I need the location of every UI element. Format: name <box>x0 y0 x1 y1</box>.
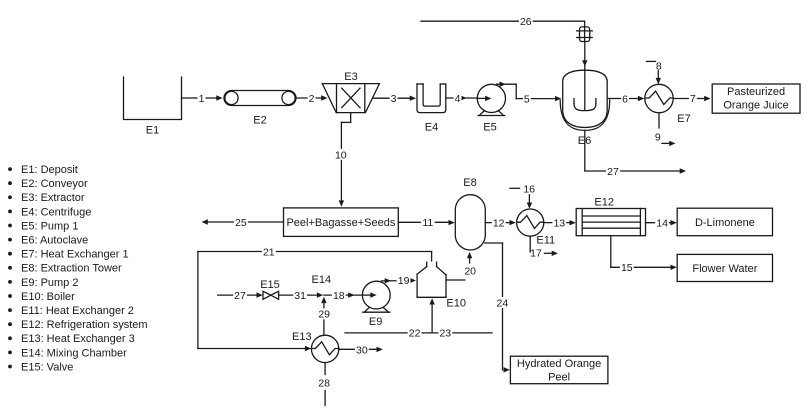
svg-text:9: 9 <box>655 131 661 143</box>
svg-text:E3: E3 <box>344 71 357 83</box>
wire stream 13 <box>544 217 576 229</box>
wire stream 22-23 (into E10 bottom) <box>345 298 492 340</box>
wire stream 12 <box>485 217 516 229</box>
svg-text:E8: E8 <box>463 177 476 189</box>
svg-text:25: 25 <box>235 217 247 229</box>
svg-text:E13: Heat Exchanger 3: E13: Heat Exchanger 3 <box>21 333 135 345</box>
svg-text:6: 6 <box>622 93 628 105</box>
svg-text:E1: Deposit: E1: Deposit <box>21 164 78 176</box>
svg-text:E12: E12 <box>594 196 614 208</box>
wire stream 27 feed (into valve E15) <box>218 290 263 302</box>
mixing chamber E14 (tee junction) <box>312 274 332 286</box>
svg-text:Orange Juice: Orange Juice <box>723 99 788 111</box>
wire stream 19 (pump E9 discharge) <box>382 275 416 287</box>
svg-text:23: 23 <box>439 328 451 340</box>
extractor E3 <box>322 71 379 112</box>
svg-text:Flower Water: Flower Water <box>692 263 757 275</box>
wire stream 11 <box>398 217 455 229</box>
wire stream 21 (loop) <box>198 246 432 351</box>
svg-text:22: 22 <box>409 328 421 340</box>
legend equipment list <box>8 164 147 373</box>
svg-text:E14: E14 <box>312 274 332 286</box>
svg-text:29: 29 <box>318 309 330 321</box>
svg-text:11: 11 <box>422 217 433 229</box>
wire stream 27 (E6 bottom out) <box>585 130 686 178</box>
svg-text:Peel+Bagasse+Seeds: Peel+Bagasse+Seeds <box>286 217 395 229</box>
svg-text:7: 7 <box>690 93 696 105</box>
wire stream 2 <box>296 93 328 105</box>
motor M on autoclave E6 <box>577 21 593 41</box>
svg-text:E11: Heat Exchanger 2: E11: Heat Exchanger 2 <box>21 305 134 317</box>
wire stream 14 <box>646 217 677 229</box>
wire stream 30 (E13 out) <box>339 344 383 356</box>
svg-text:E8: Extraction Tower: E8: Extraction Tower <box>21 263 122 275</box>
svg-text:3: 3 <box>391 93 397 105</box>
autoclave E6 vessel <box>563 70 608 127</box>
svg-text:E9: Pump 2: E9: Pump 2 <box>21 277 78 289</box>
wire stream 24 (E8 to Hydrated Orange Peel) <box>485 243 510 373</box>
conveyor E2 <box>224 91 296 127</box>
svg-text:30: 30 <box>356 344 368 356</box>
heat exchanger E7 <box>645 84 691 125</box>
svg-text:Peel: Peel <box>548 371 570 383</box>
wire stream 5 (pump E5 discharge) <box>497 82 562 106</box>
svg-text:20: 20 <box>464 266 476 278</box>
sink box Pasteurized Orange Juice <box>712 84 800 113</box>
svg-text:E2: Conveyor: E2: Conveyor <box>21 178 88 190</box>
svg-text:16: 16 <box>523 183 535 195</box>
wire stream 1 <box>182 93 223 105</box>
svg-text:E5: Pump 1: E5: Pump 1 <box>21 220 78 232</box>
wire stream 8 (into E7) <box>647 60 662 84</box>
svg-text:21: 21 <box>263 246 275 258</box>
svg-text:4: 4 <box>455 93 461 105</box>
refrigeration system E12 <box>576 196 645 235</box>
sink box Hydrated Orange Peel <box>510 356 608 384</box>
wire stream 26 <box>421 16 585 28</box>
wire stream 6 <box>607 93 644 105</box>
svg-text:15: 15 <box>621 262 633 274</box>
svg-text:E2: E2 <box>253 114 266 126</box>
valve E15 <box>260 279 280 299</box>
svg-text:E7: E7 <box>677 113 690 125</box>
wire stream 16 (into E11) <box>510 183 535 208</box>
svg-text:E13: E13 <box>292 331 312 343</box>
svg-text:E6: Autoclave: E6: Autoclave <box>21 235 88 247</box>
heat exchanger E11 <box>517 209 556 246</box>
sink box D-Limonene <box>677 208 772 236</box>
wire stream 18 <box>324 289 363 301</box>
svg-text:E3: Extractor: E3: Extractor <box>21 192 85 204</box>
svg-text:17: 17 <box>530 248 542 260</box>
svg-text:E4: E4 <box>425 121 438 133</box>
svg-text:27: 27 <box>234 290 246 302</box>
extraction tower E8 <box>455 177 485 250</box>
wire stream 17 (E11 bottom out) <box>530 236 558 260</box>
svg-text:Pasteurized: Pasteurized <box>727 86 785 98</box>
svg-text:E5: E5 <box>483 121 496 133</box>
heat exchanger E13 <box>292 331 339 363</box>
wire stream 28 (into E13 bottom) <box>318 363 330 406</box>
svg-text:19: 19 <box>398 275 410 287</box>
svg-text:1: 1 <box>199 93 205 105</box>
svg-text:E11: E11 <box>536 234 555 246</box>
agitator shaft <box>582 42 587 110</box>
sink box Flower Water <box>677 254 772 281</box>
wire stream 15 (E12 bottom out) <box>611 236 677 275</box>
wire stream 9 (E7 bottom out) <box>655 113 676 146</box>
boiler E10 <box>417 262 466 310</box>
centrifuge E4 (U-tube) <box>417 84 446 133</box>
autoclave E6 jacket <box>560 100 610 130</box>
svg-text:2: 2 <box>309 93 315 105</box>
label E6 <box>577 135 591 147</box>
wire stream 3 <box>374 93 417 105</box>
wire stream 20 (into E8 bottom) <box>464 252 476 278</box>
wire stream 29 (E13 to E14) <box>317 297 331 336</box>
svg-text:E4: Centrifuge: E4: Centrifuge <box>21 206 91 218</box>
svg-text:Hydrated Orange: Hydrated Orange <box>517 358 601 370</box>
svg-text:27: 27 <box>607 166 619 178</box>
wire stream 10 (E3 bottom out) <box>334 113 351 207</box>
svg-text:24: 24 <box>497 297 509 309</box>
impeller of E6 <box>574 99 596 111</box>
svg-text:E7: Heat Exchanger 1: E7: Heat Exchanger 1 <box>21 249 129 261</box>
pump E9 <box>362 281 390 328</box>
svg-text:E9: E9 <box>369 316 382 328</box>
svg-text:E12: Refrigeration system: E12: Refrigeration system <box>21 319 148 331</box>
svg-text:18: 18 <box>333 290 345 302</box>
svg-text:D-Limonene: D-Limonene <box>695 217 755 229</box>
mixer box Peel+Bagasse+Seeds <box>284 208 399 237</box>
vessel E1 deposit (open tank) <box>124 77 182 136</box>
wire stream 25 <box>202 217 284 229</box>
svg-text:E15: Valve: E15: Valve <box>21 361 73 373</box>
svg-text:E15: E15 <box>260 279 280 291</box>
svg-text:14: 14 <box>656 218 668 230</box>
pump E5 <box>477 84 505 133</box>
svg-text:E14: Mixing Chamber: E14: Mixing Chamber <box>21 347 127 359</box>
svg-text:26: 26 <box>520 16 532 28</box>
svg-text:10: 10 <box>335 149 347 161</box>
svg-text:E1: E1 <box>146 124 159 136</box>
svg-text:5: 5 <box>524 93 530 105</box>
svg-text:28: 28 <box>318 377 330 389</box>
svg-text:12: 12 <box>493 217 505 229</box>
wire stream 31 <box>279 290 324 302</box>
svg-text:E10: E10 <box>446 298 466 310</box>
svg-text:E10: Boiler: E10: Boiler <box>21 291 75 303</box>
svg-text:31: 31 <box>294 290 306 302</box>
wire stream 7 <box>673 93 710 105</box>
wire stream 4 <box>446 93 478 105</box>
svg-text:13: 13 <box>553 217 565 229</box>
